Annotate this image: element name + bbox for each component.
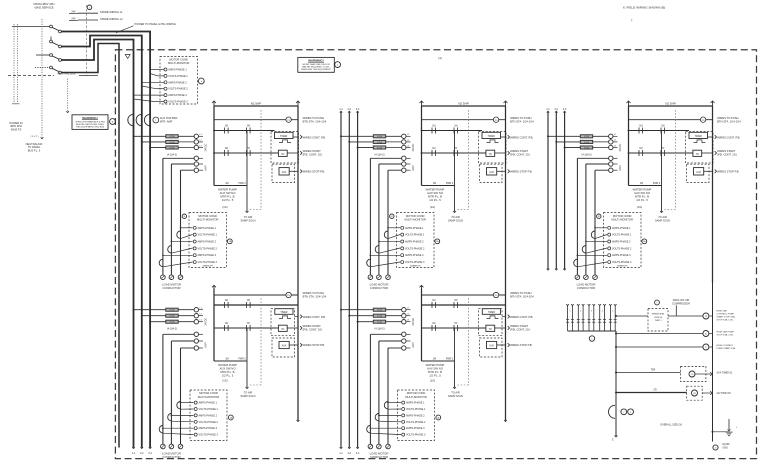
svg-text:VOLTS-PHASE 3: VOLTS-PHASE 3 — [198, 261, 218, 264]
motor leads 4M (unit 4) — [163, 334, 181, 444]
coupling arc with tags 7 2 — [608, 405, 633, 418]
svg-text:SAMP SOLN: SAMP SOLN — [240, 219, 255, 223]
riser to panelboard — [12, 19, 69, 139]
svg-text:AUX FOR BKR: AUX FOR BKR — [160, 116, 178, 120]
thermostat — [648, 300, 668, 331]
svg-text:FU2A: FU2A — [170, 146, 176, 149]
svg-text:1M: 1M — [225, 323, 228, 325]
motor starter 2M (unit 2): control ladder — [420, 101, 535, 283]
svg-text:AMPS-PHASE 2: AMPS-PHASE 2 — [406, 414, 425, 417]
svg-text:24V PWR ON: 24V PWR ON — [717, 393, 732, 395]
svg-text:SPARE-PH: SPARE-PH — [410, 264, 421, 267]
svg-text:SPARE WIRING L1: SPARE WIRING L1 — [100, 10, 123, 14]
motor starter 5M (unit 5): control ladder — [420, 283, 535, 422]
svg-text:TD: TD — [696, 154, 699, 156]
svg-text:PWR 2: PWR 2 — [238, 183, 246, 185]
svg-text:VOLTS-PHASE 3: VOLTS-PHASE 3 — [406, 434, 426, 437]
svg-text:(1G): (1G) — [222, 205, 227, 209]
svg-text:FU2A: FU2A — [170, 309, 176, 312]
svg-text:1/2 P.L. 5: 1/2 P.L. 5 — [222, 374, 234, 378]
svg-text:2: 2 — [580, 311, 581, 313]
CT coils 3M (unit 3) — [574, 227, 607, 267]
motor terminals T1 T2 T3 1M (unit 1) — [161, 275, 183, 290]
svg-text:AUX: AUX — [282, 345, 287, 348]
svg-text:TO AIR: TO AIR — [451, 215, 460, 219]
motor leads 3M (unit 3) — [577, 158, 595, 274]
svg-text:COMPRESSOR: COMPRESSOR — [672, 302, 690, 305]
svg-text:1/2 P.L. 5: 1/2 P.L. 5 — [222, 198, 234, 202]
svg-text:1M: 1M — [433, 183, 436, 185]
svg-text:1M: 1M — [247, 125, 250, 127]
svg-text:BTN STA. 1G4-1G4: BTN STA. 1G4-1G4 — [717, 119, 741, 123]
feeder wire L2 — [61, 36, 141, 448]
svg-text:L2: L2 — [407, 140, 409, 142]
multi-monitor 5M (unit 5) — [398, 390, 441, 441]
svg-text:FU2A: FU2A — [170, 141, 176, 144]
svg-text:WIRES STOP P.B.: WIRES STOP P.B. — [303, 170, 326, 174]
svg-text:1M: 1M — [432, 300, 435, 302]
svg-text:1M: 1M — [639, 148, 642, 150]
svg-text:N2 5HP: N2 5HP — [665, 101, 676, 105]
svg-text:FU2A: FU2A — [584, 141, 590, 144]
svg-text:AUX: AUX — [696, 171, 701, 174]
svg-text:OPEN UPSTREAM BKR & PNL: OPEN UPSTREAM BKR & PNL — [75, 120, 106, 123]
svg-text:TIMER: TIMER — [488, 312, 495, 314]
svg-text:L1: L1 — [407, 134, 409, 136]
svg-text:PWR 2: PWR 2 — [446, 359, 454, 361]
svg-text:AUX: AUX — [489, 345, 494, 348]
svg-text:24V: 24V — [71, 17, 76, 20]
svg-text:VOLTS-PHASE 3: VOLTS-PHASE 3 — [168, 101, 188, 104]
svg-text:5: 5 — [612, 311, 613, 313]
svg-text:PUMP HI: PUMP HI — [654, 317, 662, 319]
feeder neutral wire — [61, 44, 119, 448]
svg-text:START STOP STA.: START STOP STA. — [717, 316, 736, 319]
svg-text:24VDC: 24VDC — [619, 143, 622, 151]
svg-text:AMPS-PHASE 2: AMPS-PHASE 2 — [199, 414, 218, 417]
svg-text:L3: L3 — [200, 145, 202, 147]
svg-text:TD: TD — [281, 154, 284, 156]
svg-text:VOLTS-PHASE 2: VOLTS-PHASE 2 — [406, 421, 426, 424]
svg-text:(4-1)(4-2): (4-1)(4-2) — [374, 328, 384, 331]
svg-text:WIRES CONT. P.B.: WIRES CONT. P.B. — [510, 135, 533, 139]
svg-text:TD: TD — [247, 323, 250, 325]
svg-text:1: 1 — [569, 311, 570, 313]
bottom wire tags column B — [339, 447, 360, 455]
svg-text:SAMP SOLN: SAMP SOLN — [655, 219, 670, 223]
svg-text:SAMP SOLN: SAMP SOLN — [240, 394, 255, 398]
svg-text:24V: 24V — [71, 11, 76, 14]
svg-text:SAMP SOLN: SAMP SOLN — [448, 219, 463, 223]
svg-text:WIRES CONT. P.B.: WIRES CONT. P.B. — [510, 315, 533, 319]
svg-text:(1G): (1G) — [430, 379, 435, 383]
svg-text:MOTOR COND: MOTOR COND — [613, 214, 632, 218]
svg-text:L3: L3 — [200, 320, 202, 322]
svg-text:L2: L2 — [407, 314, 409, 316]
svg-text:VOLTS-PHASE 2: VOLTS-PHASE 2 — [198, 247, 218, 250]
svg-text:1M: 1M — [247, 300, 250, 302]
CT coils 4M (unit 4) — [159, 402, 193, 435]
svg-text:AMP: AMP — [412, 342, 415, 348]
svg-text:BTN STA. 1G4-1G4: BTN STA. 1G4-1G4 — [510, 119, 534, 123]
svg-text:SPARE-PH: SPARE-PH — [202, 264, 213, 267]
svg-text:L1: L1 — [614, 134, 616, 136]
wire stubs 1-1 2-2 3-3 column B — [339, 109, 360, 447]
svg-text:7.: 7. — [631, 19, 634, 23]
motor terminals T1 T2 T3 4M (unit 4) — [161, 444, 183, 459]
svg-text:TD: TD — [281, 329, 284, 331]
motor terminals T1 T2 T3 3M (unit 3) — [575, 275, 597, 290]
svg-text:(4-1)(4-2): (4-1)(4-2) — [374, 153, 384, 156]
svg-text:BTN STA. 1G4-1G4: BTN STA. 1G4-1G4 — [510, 295, 534, 299]
aux section heading — [672, 299, 690, 316]
svg-text:1M: 1M — [454, 300, 457, 302]
svg-text:MOTOR COND: MOTOR COND — [169, 58, 188, 62]
svg-text:1M: 1M — [454, 125, 457, 127]
svg-text:SPARE WIRING L2: SPARE WIRING L2 — [100, 17, 123, 21]
svg-text:WARNING!: WARNING! — [308, 58, 324, 62]
pump stop pilot A — [615, 330, 735, 336]
warning box 2 — [298, 57, 341, 72]
svg-text:FU2A: FU2A — [170, 135, 176, 138]
svg-text:AMP: AMP — [412, 165, 415, 171]
svg-text:CONTROL PUMP: CONTROL PUMP — [717, 314, 735, 316]
svg-text:AMP: AMP — [205, 342, 208, 348]
main disconnect switch (4 pole) — [12, 25, 61, 74]
svg-text:FU2A: FU2A — [170, 321, 176, 324]
svg-text:AMPS-PHASE 3: AMPS-PHASE 3 — [405, 254, 424, 257]
fuse group FU 4M (unit 4) — [133, 308, 208, 331]
svg-text:AMPS-PHASE 3: AMPS-PHASE 3 — [198, 254, 217, 257]
svg-text:PWR 2: PWR 2 — [653, 183, 661, 185]
svg-text:THIS EQUIPMENT GND BUS: THIS EQUIPMENT GND BUS — [76, 127, 105, 129]
svg-text:AMPS-PHASE 1: AMPS-PHASE 1 — [405, 227, 424, 230]
svg-text:VOLTS-PHASE 1: VOLTS-PHASE 1 — [405, 234, 425, 237]
svg-text:EQUIP: EQUIP — [723, 444, 731, 446]
svg-text:CR: CR — [653, 389, 657, 391]
fuse group FU 3M (unit 3) — [547, 134, 622, 156]
svg-text:1M: 1M — [639, 125, 642, 127]
bottom wire tags column A — [132, 447, 153, 455]
neutral bus — [8, 72, 98, 76]
svg-text:CONDUCTOR: CONDUCTOR — [162, 286, 180, 290]
multi-monitor 3M (unit 3) — [597, 213, 647, 268]
svg-text:MOTOR COND: MOTOR COND — [199, 391, 218, 395]
ground shield symbol — [125, 55, 130, 59]
svg-text:N2 5HP: N2 5HP — [251, 101, 262, 105]
svg-text:L1: L1 — [200, 308, 202, 310]
svg-text:MULTI-MONITOR: MULTI-MONITOR — [611, 218, 632, 222]
svg-text:(P.B. CONT. 1G): (P.B. CONT. 1G) — [303, 153, 323, 157]
svg-text:MULTI-MONITOR: MULTI-MONITOR — [198, 395, 219, 399]
svg-text:AMPS-PHASE 2: AMPS-PHASE 2 — [198, 241, 217, 244]
multi-monitor 2M (unit 2) — [390, 213, 440, 268]
contactor contacts 1M 2M (unit 2) — [370, 156, 415, 172]
svg-text:1M: 1M — [225, 183, 228, 185]
svg-text:1M: 1M — [640, 183, 643, 185]
motor terminals T1 T2 T3 5M (unit 5) — [368, 444, 390, 459]
timer relay TDR — [615, 366, 733, 381]
svg-text:POWER IN: POWER IN — [9, 121, 22, 125]
svg-text:MAY BE REQUIRED TO DE-: MAY BE REQUIRED TO DE- — [302, 66, 330, 69]
svg-text:WIRES START: WIRES START — [303, 324, 321, 328]
svg-text:STOP STA. COIL: STOP STA. COIL — [717, 319, 735, 322]
svg-text:TO AIR: TO AIR — [244, 390, 253, 394]
breaker CT coils — [128, 114, 178, 125]
svg-text:WIRES START: WIRES START — [510, 149, 528, 153]
feeder wire L3 — [61, 40, 133, 448]
svg-text:60HZ P.3: 60HZ P.3 — [11, 128, 22, 132]
svg-text:MULTI-MONITOR: MULTI-MONITOR — [197, 218, 218, 222]
svg-text:TIMER: TIMER — [695, 136, 702, 138]
control panel enclosure (dashed boundary) — [115, 50, 756, 459]
CT coils 2M (unit 2) — [367, 227, 400, 267]
svg-text:(4-1)(4-2): (4-1)(4-2) — [581, 153, 591, 156]
svg-text:MTR. AMP: MTR. AMP — [160, 119, 173, 123]
multi-monitor 4M (unit 4) — [190, 390, 233, 441]
svg-text:24VDC: 24VDC — [205, 143, 208, 151]
svg-text:VOLTS-PHASE 1: VOLTS-PHASE 1 — [168, 75, 188, 78]
svg-text:TEMP 3: TEMP 3 — [655, 320, 662, 322]
svg-text:AMPS-PHASE 1: AMPS-PHASE 1 — [198, 227, 217, 230]
svg-text:THERMOSTAT: THERMOSTAT — [652, 313, 666, 316]
svg-text:VOLTS-PHASE 1: VOLTS-PHASE 1 — [612, 234, 632, 237]
motor starter 4M (unit 4): control ladder — [212, 283, 327, 422]
svg-text:AMP: AMP — [205, 165, 208, 171]
field wiring terminal pairs — [566, 304, 617, 341]
svg-text:BTN STA. 1G4-1G4: BTN STA. 1G4-1G4 — [303, 119, 327, 123]
general notes — [623, 6, 665, 23]
svg-text:FU2A: FU2A — [377, 141, 383, 144]
svg-text:WIRES TO PUSH: WIRES TO PUSH — [303, 291, 324, 295]
svg-text:(P.B. CONT. 1G): (P.B. CONT. 1G) — [717, 153, 737, 157]
svg-text:TO PANEL: TO PANEL — [28, 145, 41, 149]
svg-text:1M: 1M — [225, 359, 228, 361]
motor starter 1M (unit 1): control ladder — [212, 101, 327, 283]
motor leads 1M (unit 1) — [163, 158, 181, 274]
svg-text:CONDUCTOR: CONDUCTOR — [370, 455, 388, 459]
svg-text:CONDUCTOR: CONDUCTOR — [577, 286, 595, 290]
svg-text:AMPS-PHASE 3: AMPS-PHASE 3 — [199, 427, 218, 430]
svg-text:FU2A: FU2A — [377, 146, 383, 149]
svg-text:MOTOR COND: MOTOR COND — [406, 214, 425, 218]
svg-text:AMPS-PHASE 3: AMPS-PHASE 3 — [612, 254, 631, 257]
neutral gnd label — [26, 142, 43, 153]
fuse group FU 5M (unit 5) — [340, 308, 415, 331]
svg-text:FU2A: FU2A — [377, 135, 383, 138]
svg-text:WIRES STOP P.B.: WIRES STOP P.B. — [717, 170, 740, 174]
svg-text:MOTOR COND: MOTOR COND — [198, 214, 217, 218]
svg-text:AMPS-PHASE 1: AMPS-PHASE 1 — [168, 69, 187, 72]
CT coils 5M (unit 5) — [367, 402, 401, 435]
svg-text:1M: 1M — [432, 125, 435, 127]
svg-text:VOLTS-PHASE 1: VOLTS-PHASE 1 — [199, 408, 219, 411]
svg-text:TIMER: TIMER — [280, 312, 287, 314]
svg-text:PWR 2: PWR 2 — [238, 359, 246, 361]
svg-text:(1G): (1G) — [222, 379, 227, 383]
svg-text:FU2A: FU2A — [377, 321, 383, 324]
svg-text:1M: 1M — [433, 359, 436, 361]
svg-text:HIGH CAP PUMP: HIGH CAP PUMP — [717, 330, 735, 333]
svg-text:(P.B. CONT. 1G): (P.B. CONT. 1G) — [510, 328, 530, 332]
svg-text:AMPS-PHASE 1: AMPS-PHASE 1 — [612, 227, 631, 230]
revision flag — [87, 5, 92, 76]
svg-text:WIRES STOP P.B.: WIRES STOP P.B. — [510, 343, 533, 347]
svg-text:WIRES TO PUSH: WIRES TO PUSH — [510, 116, 531, 120]
svg-text:WIRES STOP P.B.: WIRES STOP P.B. — [510, 170, 533, 174]
svg-text:( F U T ): ( F U T ) — [30, 136, 38, 138]
svg-text:MORE THAN ONE DISCON: MORE THAN ONE DISCON — [303, 63, 330, 66]
svg-text:24VDC: 24VDC — [205, 318, 208, 326]
svg-text:FU2A: FU2A — [584, 135, 590, 138]
svg-text:1M: 1M — [225, 148, 228, 150]
contactor contacts 1M 3M (unit 3) — [577, 156, 622, 172]
svg-text:L1: L1 — [407, 308, 409, 310]
power in label — [9, 121, 22, 132]
svg-text:TD: TD — [489, 154, 492, 156]
svg-text:AUX TIMED DL: AUX TIMED DL — [717, 372, 734, 375]
svg-text:WIRES START: WIRES START — [303, 149, 321, 153]
svg-text:L1: L1 — [200, 134, 202, 136]
contactor contacts 1M 5M (unit 5) — [370, 332, 415, 350]
svg-text:1M: 1M — [432, 323, 435, 325]
feeder wire L1 — [61, 32, 150, 448]
svg-text:PUMP START STA.: PUMP START STA. — [717, 347, 737, 350]
svg-text:L3: L3 — [614, 145, 616, 147]
svg-text:SAMP SOLN: SAMP SOLN — [448, 394, 463, 398]
svg-text:WIRES TO PUSH: WIRES TO PUSH — [717, 116, 738, 120]
svg-text:L2: L2 — [614, 140, 616, 142]
svg-text:AMPS-PHASE 3: AMPS-PHASE 3 — [406, 427, 425, 430]
svg-text:STOP STA. COIL: STOP STA. COIL — [717, 333, 735, 336]
motor leads 2M (unit 2) — [370, 158, 388, 274]
svg-text:N2 5HP: N2 5HP — [458, 101, 469, 105]
svg-text:(P.B. CONT. 1G): (P.B. CONT. 1G) — [303, 328, 323, 332]
svg-text:BUS P.L. 3: BUS P.L. 3 — [28, 149, 41, 153]
svg-text:VOLTS-PHASE 3: VOLTS-PHASE 3 — [405, 261, 425, 264]
svg-text:WIRES TO PUSH: WIRES TO PUSH — [303, 116, 324, 120]
svg-text:WIRES CONT. P.B.: WIRES CONT. P.B. — [303, 315, 326, 319]
svg-text:AMPS-PHASE 1: AMPS-PHASE 1 — [199, 402, 218, 405]
svg-text:TD: TD — [454, 323, 457, 325]
svg-text:VOLTS-PHASE 1: VOLTS-PHASE 1 — [406, 408, 426, 411]
svg-text:TO AIR: TO AIR — [658, 215, 667, 219]
aux rail — [612, 331, 618, 442]
contactor contacts 1M 1M (unit 1) — [163, 156, 208, 172]
svg-text:AUX: AUX — [489, 171, 494, 174]
svg-text:TD: TD — [489, 329, 492, 331]
svg-text:VOLTS-PHASE 2: VOLTS-PHASE 2 — [612, 247, 632, 250]
fuse group FU 1M (unit 1) — [133, 134, 208, 156]
feeder callout — [116, 22, 176, 33]
wire stubs 1-1 2-2 3-3 column C — [546, 109, 567, 270]
svg-text:VOLTS-PHASE 2: VOLTS-PHASE 2 — [199, 421, 219, 424]
incoming service label — [34, 2, 55, 10]
svg-text:FU2A: FU2A — [377, 309, 383, 312]
svg-text:AMPS-PHASE 2: AMPS-PHASE 2 — [405, 241, 424, 244]
svg-text:M: M — [705, 316, 707, 318]
svg-text:L2: L2 — [200, 314, 202, 316]
svg-text:POWER TO PANEL & PNL WIRING: POWER TO PANEL & PNL WIRING — [135, 22, 176, 26]
svg-text:BTN STA. 1G4-1G4: BTN STA. 1G4-1G4 — [303, 295, 327, 299]
monitor taps — [133, 69, 164, 102]
svg-text:24VDC: 24VDC — [412, 143, 415, 151]
svg-text:3: 3 — [591, 311, 592, 313]
svg-text:WIRES CONT. P.B.: WIRES CONT. P.B. — [303, 135, 326, 139]
svg-text:HIGH CONTROL: HIGH CONTROL — [717, 345, 735, 347]
svg-text:(4-1)(4-2): (4-1)(4-2) — [167, 153, 177, 156]
svg-text:WIRES TO PUSH: WIRES TO PUSH — [510, 291, 531, 295]
svg-text:VOLTS-PHASE 2: VOLTS-PHASE 2 — [405, 247, 425, 250]
svg-text:WIRES START: WIRES START — [510, 324, 528, 328]
svg-text:WIRES CONT. P.B.: WIRES CONT. P.B. — [717, 135, 740, 139]
svg-text:ENERGIZE THIS EQUIPMENT: ENERGIZE THIS EQUIPMENT — [301, 69, 331, 71]
svg-text:1/2 P.L. 5: 1/2 P.L. 5 — [636, 198, 648, 202]
svg-text:FROM 480V 3PH: FROM 480V 3PH — [34, 2, 55, 6]
svg-text:(4-1)(4-2): (4-1)(4-2) — [167, 328, 177, 331]
svg-text:PWR 2: PWR 2 — [446, 183, 454, 185]
svg-text:WIRES START: WIRES START — [717, 149, 735, 153]
svg-text:24VDC: 24VDC — [412, 318, 415, 326]
svg-text:1M: 1M — [225, 300, 228, 302]
svg-text:OVERALL SIZE (X): OVERALL SIZE (X) — [660, 424, 682, 427]
svg-text:1M: 1M — [225, 125, 228, 127]
svg-text:480V 3PH: 480V 3PH — [10, 124, 22, 128]
svg-text:FU2A: FU2A — [170, 315, 176, 318]
svg-text:AMP: AMP — [619, 165, 622, 171]
warning box B — [72, 115, 115, 130]
svg-text:(1G): (1G) — [430, 205, 435, 209]
svg-text:6. FIELD WIRING SHOWN (B): 6. FIELD WIRING SHOWN (B) — [623, 6, 665, 10]
svg-text:AMPS-PHASE 2: AMPS-PHASE 2 — [168, 81, 187, 84]
svg-text:VOLTS-PHASE 3: VOLTS-PHASE 3 — [199, 434, 219, 437]
control relay CR — [615, 386, 731, 400]
svg-text:FU2A: FU2A — [377, 315, 383, 318]
svg-text:AUX: AUX — [282, 171, 287, 174]
svg-text:1/2 P.L. 5: 1/2 P.L. 5 — [429, 374, 441, 378]
svg-text:TDR: TDR — [651, 369, 656, 371]
svg-text:GND: GND — [723, 448, 728, 450]
svg-text:WIRES STOP P.B.: WIRES STOP P.B. — [303, 343, 326, 347]
equipment ground — [712, 283, 738, 450]
svg-text:VOLTS-PHASE 1: VOLTS-PHASE 1 — [198, 234, 218, 237]
svg-text:60HZ SERVICE: 60HZ SERVICE — [34, 6, 53, 10]
svg-text:MULTI-MONITOR: MULTI-MONITOR — [404, 218, 425, 222]
svg-text:AMPS-PHASE 2: AMPS-PHASE 2 — [612, 241, 631, 244]
svg-text:AMPS-PHASE 1: AMPS-PHASE 1 — [406, 402, 425, 405]
svg-text:(P.B. CONT. 1G): (P.B. CONT. 1G) — [510, 153, 530, 157]
svg-text:VOLTS-PHASE 2: VOLTS-PHASE 2 — [168, 88, 188, 91]
spare wiring stub 24V L2 — [69, 17, 123, 21]
motor terminals T1 T2 T3 2M (unit 2) — [368, 275, 390, 290]
svg-text:NEUTRAL/GD: NEUTRAL/GD — [26, 142, 43, 146]
svg-text:1M: 1M — [432, 148, 435, 150]
svg-text:(4): (4) — [438, 56, 441, 60]
svg-text:1/2 P.L. 5: 1/2 P.L. 5 — [429, 198, 441, 202]
incoming multi-monitor — [160, 57, 204, 105]
motor leads 5M (unit 5) — [370, 334, 388, 444]
svg-text:TIMER: TIMER — [488, 136, 495, 138]
svg-text:VOLTS-PHASE 3: VOLTS-PHASE 3 — [612, 261, 632, 264]
svg-text:L2: L2 — [200, 140, 202, 142]
svg-text:AMPS-PHASE 3: AMPS-PHASE 3 — [168, 94, 187, 97]
fuse group FU 2M (unit 2) — [340, 134, 415, 156]
svg-text:TIMER: TIMER — [280, 136, 287, 138]
svg-text:WARNING!: WARNING! — [82, 116, 98, 120]
control pump pilot P — [615, 344, 736, 350]
CT coils 1M (unit 1) — [159, 227, 192, 267]
svg-text:CONDUCTOR: CONDUCTOR — [162, 455, 180, 459]
